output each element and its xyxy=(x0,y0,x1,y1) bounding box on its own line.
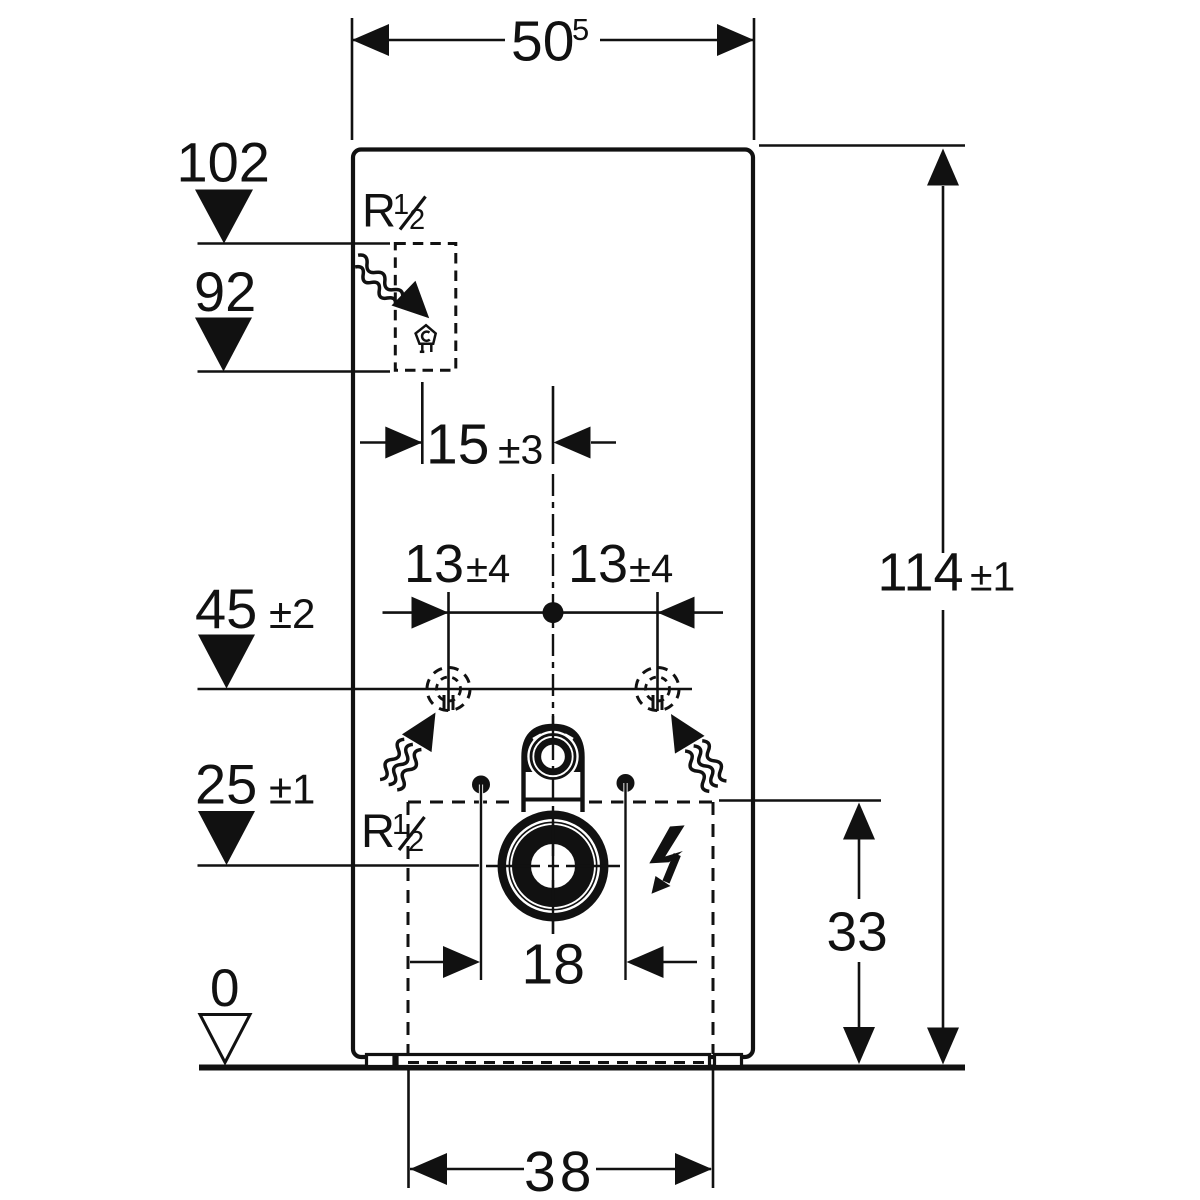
dimension 13 +/-4: right extension line xyxy=(656,592,659,711)
svg-text:38: 38 xyxy=(524,1140,595,1200)
fixing point left line xyxy=(479,785,483,981)
svg-text:13: 13 xyxy=(568,534,628,594)
svg-text:±4: ±4 xyxy=(466,547,510,591)
faucet icon (stop valve) xyxy=(416,325,436,352)
svg-text:114: 114 xyxy=(878,542,964,602)
level 0 open triangle marker xyxy=(200,1015,250,1063)
svg-text:±4: ±4 xyxy=(629,547,673,591)
dimension 13 +/-4: left extension line xyxy=(447,592,450,711)
dimension 50.5 top: extension line right xyxy=(753,18,756,140)
svg-text:0: 0 xyxy=(210,959,239,1018)
dimension 18: left arrowhead xyxy=(443,946,480,978)
svg-text:1: 1 xyxy=(393,189,409,221)
level 92 reference line xyxy=(198,370,391,373)
hot water flow arrow bottom left (wavy arrow) xyxy=(376,703,450,794)
dimension 114 +/-1 right: upper line segment xyxy=(942,186,945,553)
R 1/2 top label xyxy=(362,184,425,237)
dimension 38 bottom: extension line right xyxy=(712,1069,715,1188)
svg-text:33: 33 xyxy=(827,901,888,963)
fixing point right line xyxy=(623,783,627,980)
dimension 13 +/-4: right arrowhead xyxy=(658,597,695,629)
svg-text:45: 45 xyxy=(195,577,257,640)
dimension 114 +/-1 right: top reference line xyxy=(759,144,965,147)
vertical centerline overlay through fitting xyxy=(552,716,554,934)
dimension 50.5 top: dimension line left segment xyxy=(352,39,505,42)
threaded hole right (dashed circle) xyxy=(636,668,679,711)
svg-text:13: 13 xyxy=(404,534,464,594)
dimension 38 bottom: right arrowhead xyxy=(675,1153,712,1185)
dimension 13 +/-4: dimension line xyxy=(383,611,724,614)
dimension 33 right: down arrowhead xyxy=(843,1027,875,1064)
dimension 50.5 top: left arrowhead xyxy=(352,24,389,56)
floor line xyxy=(199,1065,965,1071)
svg-text:R: R xyxy=(362,184,396,237)
dimension 15 +/-3: right tail line xyxy=(591,441,616,444)
svg-text:5: 5 xyxy=(572,12,589,47)
dimension 18: right tail line xyxy=(663,961,697,964)
dimension 33 right: upper line segment xyxy=(858,838,861,899)
waste water outlet: thin ring xyxy=(509,822,596,909)
level 92 triangle marker xyxy=(195,318,252,372)
dimension 38 bottom: extension line left xyxy=(407,1069,410,1188)
svg-text:92: 92 xyxy=(194,260,256,323)
level 102 triangle marker xyxy=(195,190,253,244)
dimension 38 bottom: left arrowhead xyxy=(410,1153,447,1185)
fitting: crossbar xyxy=(525,798,582,802)
svg-text:±1: ±1 xyxy=(970,553,1015,599)
level 45 reference line xyxy=(198,688,693,691)
big dashed installation box xyxy=(408,802,713,1063)
dimension 38 bottom: dimension line right segment xyxy=(596,1168,711,1171)
svg-text:25: 25 xyxy=(195,753,257,816)
dimension 18: left tail line xyxy=(410,961,444,964)
dimension 33 right: lower line segment xyxy=(858,962,861,1028)
water supply connection fitting: bracket xyxy=(524,726,583,812)
svg-text:±2: ±2 xyxy=(269,590,315,637)
dimension 50.5 top: right arrowhead xyxy=(717,24,754,56)
dimension 15 +/-3: left arrowhead xyxy=(385,427,422,459)
faucet dashed box (water supply zone) xyxy=(395,244,456,371)
dimension 114 +/-1 right: lower line segment xyxy=(942,610,945,1028)
waste water outlet: horizontal centerline xyxy=(486,865,620,867)
dimension 15 +/-3: right reference line segment xyxy=(552,386,555,464)
plinth left block xyxy=(367,1055,395,1067)
svg-text:±1: ±1 xyxy=(269,766,315,813)
electrical connection lightning bolt xyxy=(649,825,684,893)
dimension 50.5 top: dimension line right segment xyxy=(600,39,754,42)
dimension 50.5 top: extension line left xyxy=(351,18,354,140)
dimension 15 +/-3: right arrowhead xyxy=(554,427,591,459)
level 102 reference line xyxy=(198,242,391,245)
threaded hole left (dashed circle) xyxy=(427,668,470,711)
svg-text:18: 18 xyxy=(522,933,585,997)
level 25 reference line xyxy=(198,864,482,867)
dimension 13 +/-4: center dot xyxy=(543,602,564,623)
dimension 33 right: up arrowhead xyxy=(843,803,875,840)
svg-text:15: 15 xyxy=(426,413,489,477)
dimension 38 bottom: dimension line left segment xyxy=(410,1168,524,1171)
vertical centerline of module (dash-dot) xyxy=(552,474,554,934)
fitting: dark cap fill xyxy=(524,726,583,772)
R 1/2 bottom label xyxy=(361,804,424,858)
fitting: upper circle rings xyxy=(527,731,578,782)
svg-text:1: 1 xyxy=(392,809,408,841)
dimension 13 +/-4: left arrowhead xyxy=(412,597,449,629)
waste water outlet: big circle outer ring xyxy=(502,815,604,917)
dimension 18: right arrowhead xyxy=(627,946,664,978)
dimension 15 +/-3: left tail line xyxy=(360,441,422,444)
dimension 15 +/-3: left reference line (below faucet box) xyxy=(421,382,424,464)
svg-text:R: R xyxy=(361,804,395,857)
plinth middle block xyxy=(397,1055,710,1067)
dimension 114 +/-1 right: up arrowhead xyxy=(927,149,959,186)
level 45 triangle marker xyxy=(198,635,255,689)
module outline (sanitary module front view) xyxy=(353,150,753,1058)
dimension 33 right: top reference line xyxy=(719,799,881,802)
plinth right block xyxy=(715,1055,742,1067)
hot water flow arrow top (wavy arrow into faucet box) xyxy=(348,240,441,332)
fitting: cap highlights xyxy=(533,735,541,740)
hot water flow arrow bottom right (wavy arrow) xyxy=(656,705,730,796)
svg-text:50: 50 xyxy=(511,10,574,74)
svg-text:2: 2 xyxy=(408,826,424,858)
fixing point right (dot) xyxy=(617,774,635,792)
svg-text:±3: ±3 xyxy=(498,427,543,473)
level 25 triangle marker xyxy=(198,811,255,865)
svg-text:102: 102 xyxy=(177,131,270,194)
dimension 114 +/-1 right: down arrowhead xyxy=(927,1028,959,1065)
fixing point left (dot) xyxy=(472,776,490,794)
waste water outlet: inner annulus xyxy=(522,835,585,898)
